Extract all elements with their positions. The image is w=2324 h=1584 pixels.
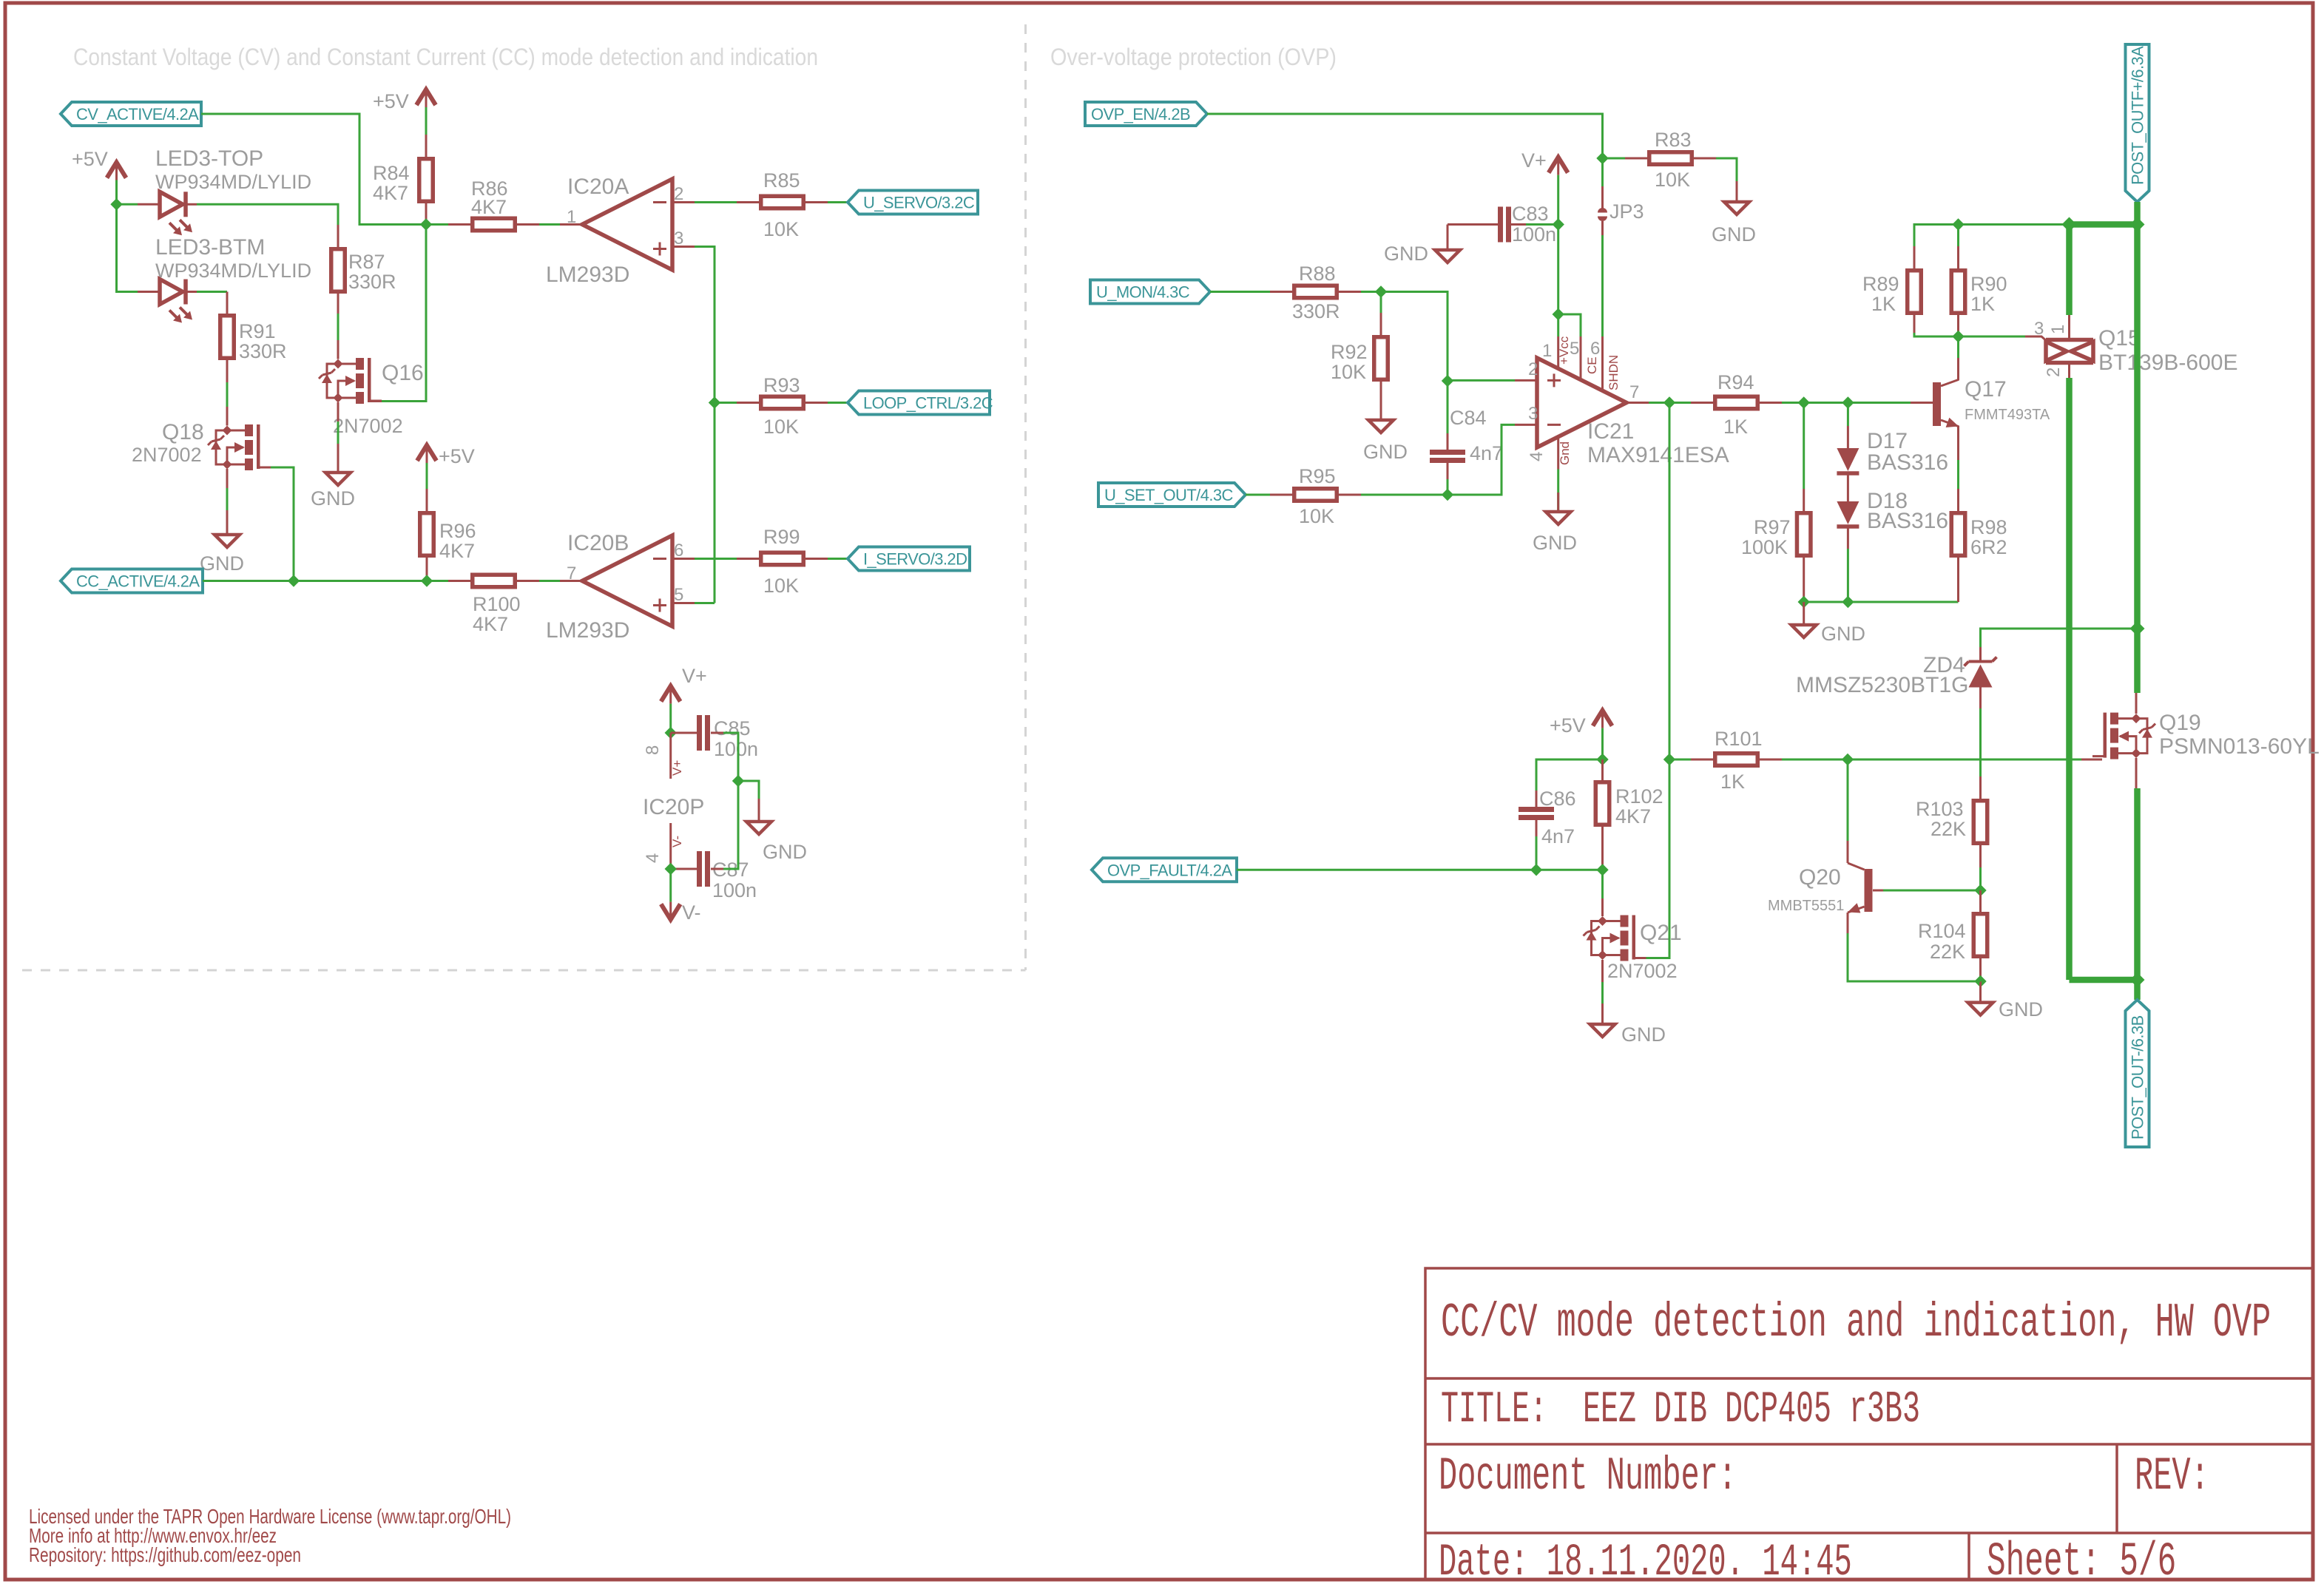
resistor R87 bbox=[331, 249, 345, 292]
svg-text:3: 3 bbox=[2034, 319, 2044, 339]
svg-text:6: 6 bbox=[674, 541, 683, 561]
svg-text:Constant Voltage (CV) and Cons: Constant Voltage (CV) and Constant Curre… bbox=[73, 44, 818, 70]
wire Q21 source to GND bbox=[1601, 982, 1604, 1003]
svg-text:10K: 10K bbox=[1655, 169, 1690, 191]
wire +5V to LED3-BTM bbox=[117, 204, 138, 291]
pin 6 wire IC20B to R99 bbox=[695, 558, 737, 560]
wire Q19 source bus bbox=[2134, 788, 2141, 980]
svg-text:GND: GND bbox=[763, 841, 807, 863]
svg-text:Q16: Q16 bbox=[382, 361, 424, 385]
net label POST_OUTF+/6.3A bbox=[2126, 44, 2149, 202]
wire R87 to Q16 drain bbox=[337, 314, 340, 340]
wire base row to Q20 bbox=[1883, 890, 1981, 892]
svg-text:R87: R87 bbox=[348, 251, 385, 273]
wire R94 to Q17 base bbox=[1782, 402, 1911, 404]
svg-text:22K: 22K bbox=[1931, 818, 1966, 840]
svg-text:LED3-TOP: LED3-TOP bbox=[155, 146, 263, 171]
wire output to R94 bbox=[1669, 402, 1691, 404]
node OVP_EN/R83 junction bbox=[1596, 152, 1608, 164]
resistor R84 bbox=[419, 159, 433, 202]
wire R104 to GND row bbox=[1979, 958, 1982, 981]
wire bottom thick row bbox=[2070, 977, 2138, 984]
node IC21 output junction bbox=[1663, 396, 1675, 408]
svg-text:+5V: +5V bbox=[1550, 714, 1586, 737]
svg-text:Repository: https://github.com: Repository: https://github.com/eez-open bbox=[29, 1543, 301, 1566]
wire GND stub (R104) bbox=[1979, 981, 1982, 1003]
wire R92 to GND bbox=[1380, 382, 1382, 420]
svg-text:BAS316: BAS316 bbox=[1867, 450, 1948, 475]
svg-text:2N7002: 2N7002 bbox=[333, 415, 403, 437]
section divider dashed vertical bbox=[1024, 24, 1027, 970]
node +5V/R102/C86 junction bbox=[1596, 754, 1608, 765]
wire R83 to GND bbox=[1716, 158, 1737, 181]
svg-text:Q17: Q17 bbox=[1965, 377, 2007, 402]
svg-text:C86: C86 bbox=[1539, 788, 1576, 810]
svg-text:V+: V+ bbox=[1521, 149, 1547, 172]
pin 2 wire IC20A to R85 bbox=[695, 201, 737, 203]
node LOOP_CTRL junction bbox=[709, 396, 720, 408]
title block row line 3 bbox=[1425, 1531, 2313, 1534]
node Q20 base junction bbox=[1974, 884, 1986, 896]
svg-text:R92: R92 bbox=[1331, 341, 1368, 363]
wire node to R83 bbox=[1603, 158, 1626, 160]
svg-text:4n7: 4n7 bbox=[1470, 442, 1503, 464]
resistor R93 bbox=[761, 396, 804, 409]
title block Sheet divider bbox=[1967, 1533, 1970, 1580]
svg-text:Document Number:: Document Number: bbox=[1439, 1450, 1737, 1503]
title block row line 2 bbox=[1425, 1443, 2313, 1446]
svg-text:R84: R84 bbox=[373, 162, 410, 184]
resistor R98 bbox=[1957, 558, 1959, 602]
wire junction to pin5 bbox=[1558, 314, 1581, 336]
wire junction to pin2 corner bbox=[1381, 292, 1448, 382]
svg-text:Gnd: Gnd bbox=[1558, 441, 1572, 465]
wire Q18 gate to CC_ACTIVE bbox=[271, 467, 294, 581]
resistor R86 bbox=[473, 218, 516, 231]
wire OVP_EN bbox=[1207, 114, 1603, 186]
node bottom row R97 bbox=[1798, 596, 1810, 608]
svg-text:4K7: 4K7 bbox=[373, 182, 408, 204]
svg-text:REV:: REV: bbox=[2135, 1450, 2209, 1503]
svg-text:2N7002: 2N7002 bbox=[1607, 960, 1678, 982]
svg-text:100n: 100n bbox=[712, 879, 757, 901]
net label CV_ACTIVE/4.2A bbox=[61, 102, 201, 126]
svg-text:Q15: Q15 bbox=[2098, 326, 2141, 351]
svg-text:V-: V- bbox=[682, 901, 701, 924]
wire JP3 to IC21 pin6 SHDN bbox=[1601, 235, 1604, 336]
wire R103 to base row bbox=[1979, 867, 1982, 890]
svg-text:4: 4 bbox=[643, 853, 663, 863]
wire POST_OUTF+ bus bbox=[2134, 202, 2141, 693]
capacitor C85 bbox=[697, 715, 702, 751]
svg-text:GND: GND bbox=[1712, 223, 1756, 246]
node V+/pin5 junction bbox=[1553, 308, 1564, 320]
resistor R94 bbox=[1715, 396, 1758, 409]
node LED supply junction bbox=[110, 198, 122, 210]
wire R89/R90 top row bbox=[1914, 225, 2070, 247]
svg-text:330R: 330R bbox=[1292, 300, 1340, 322]
resistor R99 bbox=[761, 552, 804, 565]
svg-text:R88: R88 bbox=[1299, 263, 1336, 285]
svg-text:8: 8 bbox=[643, 745, 663, 755]
svg-text:100K: 100K bbox=[1741, 536, 1788, 558]
wire U_SET_OUT to R95 bbox=[1246, 494, 1270, 496]
node pin2/C84 junction bbox=[1442, 375, 1453, 387]
node R88/R92 junction bbox=[1375, 285, 1387, 297]
svg-text:2N7002: 2N7002 bbox=[132, 444, 202, 466]
svg-text:R89: R89 bbox=[1862, 273, 1899, 295]
svg-text:TITLE: EEZ DIB DCP405 r3B3: TITLE: EEZ DIB DCP405 r3B3 bbox=[1441, 1386, 1920, 1435]
svg-text:4K7: 4K7 bbox=[439, 540, 475, 562]
wire R101 to Q19 gate bbox=[1782, 759, 2081, 761]
svg-text:V-: V- bbox=[670, 836, 684, 847]
node CC/R96 junction bbox=[421, 575, 433, 586]
svg-text:CC/CV mode detection and indic: CC/CV mode detection and indication, HW … bbox=[1441, 1296, 2271, 1350]
wire +5V to LED junction bbox=[115, 180, 118, 205]
wire ZD4 bottom to R103 bbox=[1979, 708, 1982, 776]
resistor R101 bbox=[1715, 754, 1758, 766]
node R101 left junction bbox=[1663, 754, 1675, 765]
svg-text:R91: R91 bbox=[239, 320, 276, 342]
svg-text:JP3: JP3 bbox=[1609, 200, 1644, 223]
wire OVP_FAULT row bbox=[1237, 869, 1603, 871]
wire to V- arrow bbox=[669, 869, 672, 902]
diode D17 BAS316 bbox=[1847, 403, 1849, 427]
resistor R100 bbox=[473, 575, 516, 587]
svg-text:IC20P: IC20P bbox=[643, 795, 704, 819]
svg-text:GND: GND bbox=[1384, 243, 1428, 265]
ground GND (IC21) bbox=[1546, 512, 1571, 524]
wire Q17 collector bbox=[1957, 336, 1959, 358]
section divider dashed horizontal bbox=[22, 969, 1026, 972]
svg-text:POST_OUT-/6.3B: POST_OUT-/6.3B bbox=[2129, 1015, 2147, 1140]
wire C83 gnd drop bbox=[1447, 225, 1449, 251]
svg-text:+5V: +5V bbox=[373, 90, 409, 112]
ground GND (R83) bbox=[1724, 202, 1749, 214]
svg-text:5: 5 bbox=[674, 585, 683, 605]
svg-text:R103: R103 bbox=[1916, 798, 1964, 820]
svg-text:R95: R95 bbox=[1299, 465, 1336, 487]
svg-text:Q18: Q18 bbox=[162, 420, 204, 444]
wire R99 to I_SERVO bbox=[828, 558, 848, 560]
svg-text:C83: C83 bbox=[1512, 203, 1549, 225]
svg-text:100n: 100n bbox=[714, 738, 758, 760]
wire +5V to R84 bbox=[425, 107, 428, 135]
svg-text:SHDN: SHDN bbox=[1607, 355, 1621, 390]
svg-text:R93: R93 bbox=[763, 374, 800, 396]
power V- (IC20P) bbox=[661, 904, 680, 920]
svg-text:OVP_EN/4.2B: OVP_EN/4.2B bbox=[1091, 105, 1190, 123]
svg-text:4K7: 4K7 bbox=[473, 613, 508, 635]
svg-text:GND: GND bbox=[1363, 441, 1408, 463]
svg-text:GND: GND bbox=[1821, 623, 1865, 645]
wire U_MON to R88 bbox=[1210, 291, 1270, 293]
svg-text:LED3-BTM: LED3-BTM bbox=[155, 235, 265, 260]
wire R93 to LOOP_CTRL bbox=[828, 402, 848, 404]
svg-text:R90: R90 bbox=[1970, 273, 2007, 295]
svg-text:WP934MD/LYLID: WP934MD/LYLID bbox=[155, 171, 311, 193]
svg-text:2: 2 bbox=[1528, 359, 1538, 379]
resistor R96 bbox=[420, 513, 434, 556]
svg-text:Q21: Q21 bbox=[1640, 921, 1682, 945]
wire Q20 emitter to GND row bbox=[1848, 933, 1981, 981]
svg-text:R85: R85 bbox=[763, 169, 800, 192]
svg-text:U_SET_OUT/4.3C: U_SET_OUT/4.3C bbox=[1104, 486, 1233, 504]
svg-text:LM293D: LM293D bbox=[546, 618, 629, 643]
wire LED3-BTM cathode to R91 bbox=[197, 291, 227, 293]
pin 5 wire IC20B bbox=[695, 602, 715, 604]
node emitter row junction bbox=[1974, 975, 1986, 987]
node V+/C83 junction bbox=[1553, 218, 1564, 230]
wire triac column thick (bottom) bbox=[2066, 378, 2073, 980]
net label OVP_EN/4.2B bbox=[1085, 102, 1207, 126]
svg-text:IC21: IC21 bbox=[1587, 419, 1634, 444]
pin 1 +Vcc stub bbox=[1557, 336, 1559, 369]
node bus top row bbox=[2130, 217, 2145, 232]
svg-text:22K: 22K bbox=[1930, 941, 1965, 963]
wire LED3-TOP cathode to R87 bbox=[197, 204, 338, 225]
node ZD4/bus junction bbox=[2130, 621, 2145, 636]
ground GND (Q18) bbox=[215, 535, 240, 547]
svg-text:10K: 10K bbox=[1331, 361, 1366, 383]
wire ZD4 top to bus bbox=[1979, 647, 1982, 661]
wire R85 to U_SERVO bbox=[828, 201, 848, 203]
wire CC_ACTIVE bbox=[203, 580, 448, 582]
ground GND (Q21) bbox=[1590, 1024, 1615, 1037]
wire to POST_OUT- flag bbox=[2134, 980, 2141, 1000]
op-amp power IC20P pin 8 bbox=[669, 733, 672, 779]
svg-text:Q20: Q20 bbox=[1799, 865, 1841, 890]
svg-text:U_MON/4.3C: U_MON/4.3C bbox=[1096, 283, 1190, 302]
node triac column bbox=[2062, 217, 2077, 232]
svg-text:LOOP_CTRL/3.2C: LOOP_CTRL/3.2C bbox=[863, 394, 993, 413]
wire +5V to node bbox=[1601, 728, 1604, 759]
resistor R89 bbox=[1913, 246, 1916, 268]
svg-text:R94: R94 bbox=[1717, 371, 1754, 393]
svg-text:C85: C85 bbox=[714, 717, 751, 739]
svg-text:GND: GND bbox=[200, 552, 244, 575]
wire C85 right to GND branch bbox=[711, 732, 723, 734]
node Q20 collector junction bbox=[1842, 754, 1854, 765]
node R102/Q21 junction bbox=[1596, 864, 1608, 876]
node R90 top junction bbox=[1952, 218, 1964, 230]
wire R97 branch bbox=[1803, 403, 1805, 490]
svg-text:MMSZ5230BT1G: MMSZ5230BT1G bbox=[1796, 673, 1968, 697]
wire D18 to bottom row bbox=[1847, 549, 1849, 602]
net label U_MON/4.3C bbox=[1090, 280, 1210, 304]
wire V+ to C85 node bbox=[669, 704, 672, 733]
node C84/U_SET_OUT junction bbox=[1442, 489, 1453, 501]
wire Q19 drain pin bbox=[2135, 693, 2138, 714]
svg-text:BT139B-600E: BT139B-600E bbox=[2098, 351, 2237, 375]
svg-text:10K: 10K bbox=[763, 416, 799, 438]
svg-text:R104: R104 bbox=[1918, 920, 1966, 942]
resistor R103 bbox=[1973, 801, 1987, 844]
svg-text:7: 7 bbox=[1629, 382, 1639, 402]
net label POST_OUT-/6.3B bbox=[2126, 1000, 2149, 1147]
svg-text:1K: 1K bbox=[1720, 771, 1745, 793]
svg-text:GND: GND bbox=[1533, 532, 1577, 554]
svg-text:R102: R102 bbox=[1615, 785, 1663, 808]
resistor R92 bbox=[1374, 337, 1388, 380]
wire node to R86 bbox=[426, 223, 448, 226]
wire CV_ACTIVE bbox=[201, 114, 426, 225]
wire triac column thick (top) bbox=[2066, 225, 2073, 316]
svg-text:CV_ACTIVE/4.2A: CV_ACTIVE/4.2A bbox=[76, 105, 199, 123]
svg-text:10K: 10K bbox=[1299, 505, 1334, 527]
wire C87 right bbox=[711, 868, 723, 870]
wire Q21 gate to IC21 output bbox=[1646, 403, 1670, 958]
pin 4 Gnd stub bbox=[1557, 436, 1559, 470]
wire R91 to Q18 drain bbox=[226, 382, 229, 407]
svg-text:100n: 100n bbox=[1512, 223, 1556, 246]
svg-text:I_SERVO/3.2D: I_SERVO/3.2D bbox=[863, 550, 967, 569]
node POST_OUT- junction bbox=[2130, 972, 2145, 987]
wire D17 to D18 bbox=[1847, 473, 1849, 501]
node D17 junction bbox=[1842, 396, 1854, 408]
wire Q19 source pin bbox=[2135, 758, 2138, 788]
wire to Q21 drain bbox=[1601, 870, 1604, 898]
svg-text:U_SERVO/3.2C: U_SERVO/3.2C bbox=[863, 194, 975, 212]
wire R102 to OVP_FAULT row bbox=[1601, 827, 1604, 870]
svg-text:CC_ACTIVE/4.2A: CC_ACTIVE/4.2A bbox=[76, 572, 200, 591]
svg-text:10K: 10K bbox=[763, 575, 799, 597]
ground GND (R92) bbox=[1368, 420, 1394, 433]
svg-text:6: 6 bbox=[1590, 339, 1600, 359]
svg-text:GND: GND bbox=[1621, 1023, 1666, 1046]
ground GND (Q16) bbox=[325, 473, 351, 485]
wire V+ down to IC21 bbox=[1557, 175, 1559, 336]
svg-text:POST_OUTF+/6.3A: POST_OUTF+/6.3A bbox=[2129, 46, 2147, 185]
capacitor C86 bbox=[1519, 807, 1554, 812]
wire IC21 output bbox=[1649, 402, 1669, 404]
wire C84 bottom bbox=[1447, 463, 1449, 479]
jumper JP3 bbox=[1601, 186, 1604, 209]
wire R100 to IC20B output bbox=[539, 580, 560, 582]
svg-text:IC20B: IC20B bbox=[567, 531, 629, 555]
triac Q15 BT139B-600E gate pin bbox=[2025, 336, 2047, 342]
resistor R97 bbox=[1797, 513, 1811, 556]
svg-text:1K: 1K bbox=[1723, 416, 1748, 438]
node gate row junction bbox=[1952, 331, 1964, 342]
wire R96 to CC_ACTIVE node bbox=[426, 558, 428, 581]
diode D18 BAS316 bbox=[1837, 501, 1859, 524]
wire R97 to bottom row bbox=[1803, 558, 1805, 602]
svg-text:R101: R101 bbox=[1715, 728, 1763, 750]
wire C83 right to V+ bbox=[1526, 223, 1558, 226]
title block row line 1 bbox=[1425, 1377, 2313, 1380]
svg-text:330R: 330R bbox=[239, 340, 287, 362]
svg-text:4K7: 4K7 bbox=[1615, 805, 1651, 827]
svg-text:1: 1 bbox=[1542, 341, 1552, 361]
net label U_SET_OUT/4.3C bbox=[1098, 483, 1246, 507]
svg-text:GND: GND bbox=[1999, 998, 2043, 1021]
svg-text:WP934MD/LYLID: WP934MD/LYLID bbox=[155, 260, 311, 282]
ground GND (C83) bbox=[1435, 250, 1460, 263]
title block REV divider bbox=[2115, 1444, 2118, 1533]
wire Q18 source to GND bbox=[226, 488, 229, 510]
svg-text:4n7: 4n7 bbox=[1541, 825, 1575, 847]
net label LOOP_CTRL/3.2C bbox=[848, 391, 990, 415]
capacitor C83 bbox=[1498, 207, 1503, 243]
svg-text:R96: R96 bbox=[439, 520, 476, 542]
wire pin4 to GND bbox=[1557, 470, 1559, 512]
wire +5V to R96 bbox=[426, 463, 428, 489]
resistor R91 bbox=[220, 316, 234, 359]
svg-text:+5V: +5V bbox=[72, 148, 108, 170]
ground GND (R97) bbox=[1791, 625, 1817, 637]
node R97 junction bbox=[1798, 396, 1810, 408]
wire top row thick segment bbox=[2070, 221, 2138, 228]
wire R84 to node bbox=[425, 203, 428, 225]
svg-text:R97: R97 bbox=[1754, 516, 1791, 538]
svg-text:+5V: +5V bbox=[439, 445, 475, 467]
svg-text:V+: V+ bbox=[682, 665, 707, 687]
svg-text:Sheet: 5/6: Sheet: 5/6 bbox=[1987, 1536, 2176, 1584]
wire to IC21 pin2 bbox=[1448, 379, 1515, 382]
svg-text:3: 3 bbox=[1528, 404, 1538, 424]
svg-text:BAS316: BAS316 bbox=[1867, 509, 1948, 533]
svg-text:MAX9141ESA: MAX9141ESA bbox=[1587, 443, 1729, 467]
triac terminal pins bbox=[2068, 315, 2070, 340]
wire C85 left bbox=[671, 732, 697, 734]
wire R88 to junction bbox=[1361, 291, 1381, 293]
node C85/C87/GND junction bbox=[732, 775, 744, 787]
svg-text:V+: V+ bbox=[670, 760, 684, 776]
net label U_SERVO/3.2C bbox=[848, 191, 978, 214]
resistor R90 bbox=[1957, 225, 1959, 247]
wire C83 left to GND bbox=[1448, 223, 1498, 226]
wire R98 top to Q17 emitter bbox=[1957, 460, 1959, 489]
svg-text:1K: 1K bbox=[1970, 293, 1995, 315]
pin 2 stub bbox=[1515, 379, 1537, 382]
svg-text:OVP_FAULT/4.2A: OVP_FAULT/4.2A bbox=[1107, 861, 1232, 879]
wire R89/R90 bottom row to triac gate bbox=[1914, 333, 2025, 336]
net label CC_ACTIVE/4.2A bbox=[61, 569, 203, 593]
wire Q16 source to GND bbox=[337, 422, 340, 444]
svg-text:Q19: Q19 bbox=[2159, 711, 2201, 735]
node CC/Q18 gate junction bbox=[288, 575, 300, 586]
svg-text:1K: 1K bbox=[1871, 293, 1896, 315]
wire C86 bottom to OVP_FAULT row bbox=[1536, 820, 1538, 836]
svg-text:1: 1 bbox=[2048, 325, 2068, 334]
net label I_SERVO/3.2D bbox=[848, 547, 970, 571]
svg-text:2: 2 bbox=[674, 184, 683, 204]
ground GND (IC20P) bbox=[746, 822, 771, 834]
wire R92 branch bbox=[1380, 292, 1382, 314]
svg-text:1: 1 bbox=[567, 207, 576, 227]
wire bottom row (R97/D18/R98) bbox=[1804, 601, 1959, 603]
svg-text:FMMT493TA: FMMT493TA bbox=[1965, 407, 2050, 423]
svg-text:+Vcc: +Vcc bbox=[1557, 336, 1571, 365]
resistor R85 bbox=[761, 196, 804, 209]
svg-text:Over-voltage protection (OVP): Over-voltage protection (OVP) bbox=[1050, 44, 1337, 70]
node C85/pin8 junction bbox=[665, 727, 677, 739]
resistor R83 bbox=[1649, 152, 1692, 165]
svg-text:R83: R83 bbox=[1655, 129, 1692, 151]
svg-text:MMBT5551: MMBT5551 bbox=[1768, 898, 1844, 914]
net label OVP_FAULT/4.2A bbox=[1092, 858, 1237, 881]
resistor R88 bbox=[1294, 285, 1337, 298]
svg-text:R98: R98 bbox=[1970, 516, 2007, 538]
ground GND (R104) bbox=[1968, 1003, 1993, 1015]
wire IC21 out to R101 bbox=[1669, 759, 1691, 761]
svg-text:4: 4 bbox=[1527, 452, 1547, 461]
op-amp power IC20P pin 4 bbox=[669, 823, 672, 869]
svg-text:2: 2 bbox=[2044, 368, 2064, 377]
svg-text:C84: C84 bbox=[1450, 407, 1487, 429]
svg-text:R100: R100 bbox=[473, 593, 521, 615]
